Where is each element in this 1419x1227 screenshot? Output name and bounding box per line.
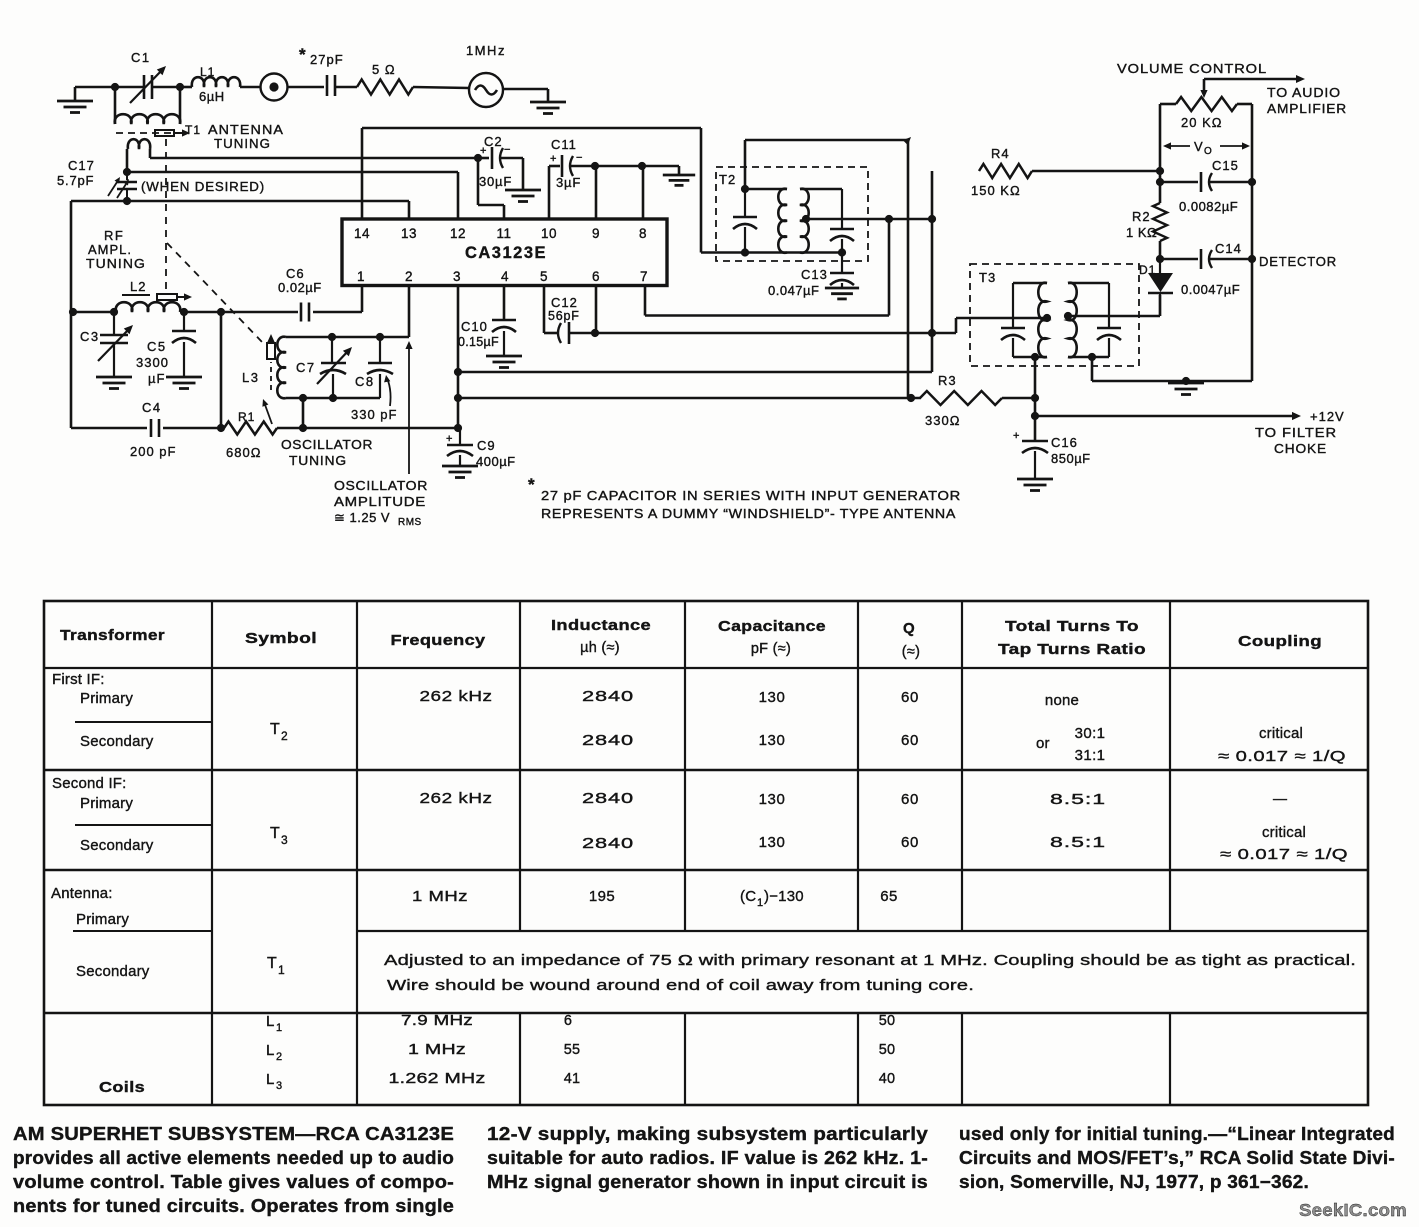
svg-text:T: T bbox=[270, 721, 280, 738]
wire R3 to C16 node bbox=[1002, 397, 1035, 400]
svg-text:R4: R4 bbox=[991, 146, 1010, 161]
svg-text:TO AUDIO: TO AUDIO bbox=[1267, 85, 1341, 100]
svg-text:C7: C7 bbox=[296, 360, 316, 375]
svg-text:Antenna:: Antenna: bbox=[51, 885, 113, 902]
svg-text:3300: 3300 bbox=[136, 355, 169, 370]
svg-text:130: 130 bbox=[759, 834, 786, 851]
ground at C16 bbox=[1017, 479, 1053, 491]
wire pot right rail bbox=[1251, 104, 1254, 381]
svg-text:L: L bbox=[266, 1013, 274, 1030]
svg-text:50: 50 bbox=[879, 1042, 896, 1058]
svg-text:20 KΩ: 20 KΩ bbox=[1181, 115, 1222, 130]
capacitor C11 3uF bbox=[549, 137, 595, 219]
node T2 primary top bbox=[741, 185, 749, 193]
wire T2 primary top to supply riser bbox=[745, 137, 911, 398]
footnote 27pF dummy antenna bbox=[528, 475, 961, 521]
node C1 left bbox=[111, 83, 119, 91]
svg-text:—: — bbox=[1273, 790, 1287, 806]
wire pot left riser bbox=[1159, 104, 1162, 203]
svg-text:Symbol: Symbol bbox=[245, 630, 317, 647]
svg-text:60: 60 bbox=[901, 834, 919, 851]
svg-text:130: 130 bbox=[759, 791, 786, 808]
svg-text:50: 50 bbox=[879, 1013, 896, 1029]
svg-text:+: + bbox=[480, 145, 486, 157]
svg-text:2840: 2840 bbox=[582, 688, 634, 705]
svg-text:Frequency: Frequency bbox=[391, 632, 486, 649]
svg-text:30:1: 30:1 bbox=[1075, 725, 1106, 742]
node C17 top bbox=[123, 168, 131, 176]
svg-text:30µF: 30µF bbox=[479, 174, 512, 189]
svg-text:5 Ω: 5 Ω bbox=[372, 62, 396, 77]
svg-text:nents for tuned circuits. Oper: nents for tuned circuits. Operates from … bbox=[13, 1196, 454, 1216]
svg-text:C12: C12 bbox=[551, 295, 578, 310]
svg-text:OSCILLATOR: OSCILLATOR bbox=[281, 437, 373, 452]
svg-text:Capacitance: Capacitance bbox=[718, 618, 826, 635]
svg-text:5.7pF: 5.7pF bbox=[57, 173, 94, 188]
svg-text:C11: C11 bbox=[551, 137, 577, 152]
label C17 5.7pF bbox=[57, 158, 95, 188]
svg-text:2: 2 bbox=[276, 1051, 282, 1063]
svg-text:)−130: )−130 bbox=[764, 888, 804, 905]
svg-text:1.262 MHz: 1.262 MHz bbox=[389, 1071, 486, 1087]
svg-text:(WHEN DESIRED): (WHEN DESIRED) bbox=[141, 179, 265, 194]
table row Antenna / T1 bbox=[51, 885, 1356, 994]
ground at C9 bbox=[442, 466, 478, 478]
capacitor C6 0.02uF bbox=[278, 266, 362, 322]
svg-text:55: 55 bbox=[564, 1042, 581, 1058]
wire pin 2 to oscillator bbox=[408, 286, 411, 337]
svg-text:262 kHz: 262 kHz bbox=[420, 688, 493, 705]
svg-text:+12V: +12V bbox=[1310, 409, 1345, 424]
node C8 top bbox=[376, 333, 384, 341]
capacitor T3 primary tuning bbox=[1001, 283, 1025, 357]
svg-text:none: none bbox=[1045, 692, 1079, 709]
wire T2 tap to R4 riser bbox=[806, 218, 932, 221]
wire R1 to pin 3 bbox=[277, 427, 458, 430]
svg-text:1: 1 bbox=[357, 269, 365, 284]
transformer T2 primary coil bbox=[745, 189, 787, 253]
svg-text:2840: 2840 bbox=[582, 790, 634, 807]
svg-text:Primary: Primary bbox=[76, 911, 129, 928]
svg-text:330Ω: 330Ω bbox=[925, 413, 960, 428]
svg-text:TUNING: TUNING bbox=[289, 453, 347, 468]
svg-text:L2: L2 bbox=[130, 279, 146, 294]
node oscillator to R1 bbox=[299, 394, 307, 402]
capacitor T2 primary tuning bbox=[733, 189, 757, 253]
svg-text:680Ω: 680Ω bbox=[226, 445, 261, 460]
capacitor C3 (variable) bbox=[80, 312, 133, 377]
label TO AUDIO AMPLIFIER bbox=[1267, 85, 1347, 116]
svg-text:60: 60 bbox=[901, 689, 919, 706]
wire pin 7 bbox=[645, 219, 889, 316]
svg-text:1: 1 bbox=[757, 897, 763, 909]
svg-text:130: 130 bbox=[759, 732, 786, 749]
svg-text:Secondary: Secondary bbox=[80, 733, 154, 750]
node pin 6 bbox=[591, 329, 599, 337]
svg-text:SeekIC.com: SeekIC.com bbox=[1299, 1200, 1407, 1220]
oscillator tank bottom rail bbox=[286, 397, 380, 400]
transformer T3 box (dashed) bbox=[970, 264, 1139, 366]
node C14 right DETECTOR bbox=[1248, 254, 1337, 269]
svg-text:3µF: 3µF bbox=[556, 175, 581, 190]
svg-text:C14: C14 bbox=[1215, 241, 1242, 256]
svg-text:provides all active elements n: provides all active elements needed up t… bbox=[13, 1148, 454, 1168]
svg-text:850µF: 850µF bbox=[1051, 451, 1091, 466]
svg-text:8.5:1: 8.5:1 bbox=[1050, 791, 1106, 808]
pot wiper to audio amplifier bbox=[1200, 75, 1305, 98]
svg-text:C9: C9 bbox=[477, 438, 496, 453]
svg-text:Coils: Coils bbox=[99, 1079, 145, 1096]
svg-text:Secondary: Secondary bbox=[80, 837, 154, 854]
svg-text:RMS: RMS bbox=[398, 517, 422, 528]
svg-text:T: T bbox=[267, 955, 277, 972]
caption column 1 bbox=[13, 1124, 454, 1216]
capacitor C16 850uF bbox=[1013, 430, 1091, 479]
node C15 right bbox=[1248, 178, 1256, 186]
svg-text:31:1: 31:1 bbox=[1075, 747, 1106, 764]
svg-text:C1: C1 bbox=[131, 50, 151, 65]
svg-text:Coupling: Coupling bbox=[1238, 633, 1322, 650]
svg-text:11: 11 bbox=[496, 226, 511, 241]
svg-text:60: 60 bbox=[901, 791, 919, 808]
wire oscillator bottom to R1 wire bbox=[299, 398, 307, 432]
svg-text:27pF: 27pF bbox=[310, 52, 344, 67]
table row First IF bbox=[52, 671, 1346, 765]
ground at C11 line bbox=[663, 175, 695, 185]
node C7 top bbox=[328, 333, 336, 341]
table row Coils bbox=[99, 1013, 895, 1096]
svg-text:L3: L3 bbox=[242, 370, 259, 385]
capacitor C7 (variable) bbox=[296, 337, 352, 398]
inductor L2 bbox=[116, 279, 181, 312]
svg-text:4: 4 bbox=[501, 269, 509, 284]
wire generator to ground bbox=[503, 88, 548, 91]
svg-text:Transformer: Transformer bbox=[60, 627, 165, 644]
wire +12V line bbox=[1035, 412, 1301, 420]
svg-text:14: 14 bbox=[354, 226, 370, 241]
svg-text:C17: C17 bbox=[68, 158, 95, 173]
potentiometer 20K volume bbox=[1160, 97, 1252, 130]
svg-text:C15: C15 bbox=[1212, 158, 1239, 173]
wire R4 riser bbox=[928, 171, 936, 372]
svg-text:≈ 0.017 ≈ 1/Q: ≈ 0.017 ≈ 1/Q bbox=[1218, 748, 1346, 765]
capacitor C14 0.0047uF bbox=[1160, 241, 1252, 297]
wire T1 secondary to C2 (H1) bbox=[150, 157, 478, 160]
label OSCILLATOR TUNING with arrow bbox=[262, 399, 373, 468]
ground at output rail bbox=[1168, 383, 1204, 395]
watermark SeekIC.com bbox=[1299, 1200, 1407, 1220]
svg-text:ANTENNA: ANTENNA bbox=[208, 122, 284, 137]
svg-text:sion, Somerville, NJ, 1977, p: sion, Somerville, NJ, 1977, p 361−362. bbox=[959, 1172, 1309, 1192]
label WHEN DESIRED bbox=[141, 179, 265, 194]
svg-text:C16: C16 bbox=[1051, 435, 1078, 450]
svg-text:critical: critical bbox=[1259, 725, 1303, 742]
pin numbers top row bbox=[354, 226, 647, 241]
svg-text:8: 8 bbox=[639, 226, 647, 241]
transformer T1 secondary bbox=[127, 139, 150, 172]
Vo annotation bbox=[1163, 139, 1250, 157]
node ground rail bbox=[1182, 377, 1190, 385]
svg-text:L1: L1 bbox=[200, 65, 215, 79]
svg-text:1MHz: 1MHz bbox=[466, 43, 506, 58]
svg-text:3: 3 bbox=[276, 1080, 282, 1092]
svg-text:First IF:: First IF: bbox=[52, 671, 105, 688]
svg-text:critical: critical bbox=[1262, 824, 1306, 841]
svg-text:1 KΩ: 1 KΩ bbox=[1126, 225, 1157, 240]
svg-text:0.15µF: 0.15µF bbox=[458, 335, 499, 349]
transformer T3 primary coil bbox=[1013, 283, 1047, 358]
node C2 input bbox=[474, 154, 482, 162]
table row Second IF bbox=[52, 775, 1348, 863]
svg-text:150 KΩ: 150 KΩ bbox=[971, 183, 1021, 198]
svg-text:+: + bbox=[1013, 430, 1019, 442]
svg-text:R2: R2 bbox=[1132, 209, 1151, 224]
svg-text:Second IF:: Second IF: bbox=[52, 775, 127, 792]
node A (R4 feed) bbox=[1156, 167, 1164, 175]
capacitor C8 330pF bbox=[355, 337, 393, 398]
svg-text:Primary: Primary bbox=[80, 795, 133, 812]
diode D1 bbox=[1139, 259, 1173, 316]
node pin7 riser top bbox=[885, 215, 893, 223]
node T3 primary tap bbox=[1043, 314, 1051, 322]
capacitor C1 (variable) bbox=[130, 50, 166, 103]
signal generator 1 MHz bbox=[466, 43, 506, 107]
svg-text:µh (≈): µh (≈) bbox=[580, 640, 620, 656]
wire W2 pin3 to R3 bbox=[458, 397, 921, 400]
node T3 secondary bottom bbox=[1088, 353, 1096, 361]
table frame bbox=[44, 601, 1368, 1105]
svg-text:8.5:1: 8.5:1 bbox=[1050, 834, 1106, 851]
capacitor *27pF bbox=[299, 45, 357, 96]
T1 tuning slug bbox=[155, 129, 190, 136]
svg-text:1 MHz: 1 MHz bbox=[408, 1042, 466, 1058]
svg-text:DETECTOR: DETECTOR bbox=[1259, 254, 1337, 269]
label C5 3300 uF bbox=[136, 339, 169, 386]
node C15 left bbox=[1156, 178, 1164, 186]
svg-text:AM SUPERHET SUBSYSTEM—RCA C: AM SUPERHET SUBSYSTEM—RCA CA3123E bbox=[13, 1124, 454, 1144]
svg-text:(≈): (≈) bbox=[902, 644, 921, 660]
node T3 feed bbox=[1031, 394, 1039, 402]
svg-text:V: V bbox=[1194, 139, 1203, 154]
node C14 left (detector) bbox=[1156, 255, 1164, 263]
svg-text:CHOKE: CHOKE bbox=[1274, 441, 1327, 456]
label 330 pF with arrow bbox=[351, 375, 397, 422]
wire pin 3 down bbox=[457, 286, 460, 428]
capacitor T2 secondary tuning bbox=[830, 189, 854, 253]
wire C2 node to pin 11 bbox=[478, 158, 504, 220]
node T2 secondary tap bbox=[802, 215, 810, 223]
capacitor C2 30uF bbox=[478, 134, 523, 190]
L3 tuning slug bbox=[267, 334, 275, 390]
svg-text:Primary: Primary bbox=[80, 690, 133, 707]
wire C11 line to ground bbox=[595, 166, 679, 175]
svg-text:C2: C2 bbox=[484, 134, 503, 149]
wire input top rail bbox=[75, 86, 180, 89]
transformer T2 box (dashed) bbox=[716, 167, 868, 261]
inductor L1 bbox=[180, 65, 261, 104]
ground at generator bbox=[530, 89, 566, 114]
svg-text:2: 2 bbox=[405, 269, 413, 284]
ground at antenna input bbox=[57, 87, 93, 113]
wire pin 9 riser bbox=[595, 166, 598, 219]
svg-text:1: 1 bbox=[278, 963, 285, 977]
capacitor C15 0.0082uF bbox=[1160, 158, 1252, 214]
svg-text:330 pF: 330 pF bbox=[351, 407, 397, 422]
inductor L3 bbox=[242, 337, 286, 399]
resistor R1 680 ohm bbox=[224, 410, 277, 460]
pin numbers bottom row bbox=[357, 269, 648, 284]
wire pin 6 riser bbox=[595, 286, 598, 333]
connector (phono jack symbol) bbox=[261, 74, 325, 101]
node L2 right bbox=[180, 308, 188, 316]
svg-text:7: 7 bbox=[640, 269, 648, 284]
transformer T2 secondary coil bbox=[800, 189, 842, 253]
svg-text:*: * bbox=[299, 45, 306, 64]
svg-text:TUNING: TUNING bbox=[214, 136, 271, 151]
node C1 right bbox=[176, 83, 184, 91]
svg-text:T1: T1 bbox=[185, 123, 201, 137]
svg-text:6: 6 bbox=[592, 269, 600, 284]
wire L2 rail bbox=[71, 311, 362, 314]
svg-text:0.02µF: 0.02µF bbox=[278, 280, 322, 295]
node pin 9 tap bbox=[591, 162, 599, 170]
svg-text:C5: C5 bbox=[147, 339, 167, 354]
node pin 8 tap bbox=[638, 162, 646, 170]
svg-text:T2: T2 bbox=[719, 172, 736, 187]
svg-text:6: 6 bbox=[564, 1013, 572, 1029]
svg-text:R1: R1 bbox=[238, 410, 255, 424]
svg-text:volume control. Table gives va: volume control. Table gives values of co… bbox=[13, 1172, 454, 1192]
node C4 branch top bbox=[217, 308, 225, 316]
dashed gang line T1 to L2 bbox=[165, 139, 167, 294]
svg-text:7.9 MHz: 7.9 MHz bbox=[401, 1013, 473, 1029]
svg-text:*: * bbox=[528, 475, 535, 494]
svg-text:56pF: 56pF bbox=[548, 309, 580, 323]
svg-text:0.0082µF: 0.0082µF bbox=[1179, 199, 1238, 214]
svg-text:C13: C13 bbox=[801, 267, 828, 282]
svg-text:T: T bbox=[270, 825, 280, 842]
oscillator tank top rail bbox=[286, 336, 409, 339]
caption column 3 bbox=[959, 1124, 1395, 1192]
svg-text:AMPLITUDE: AMPLITUDE bbox=[334, 494, 426, 509]
ground at C5 bbox=[166, 377, 202, 389]
caption column 2 bbox=[487, 1124, 928, 1192]
svg-text:10: 10 bbox=[541, 226, 557, 241]
svg-text:1: 1 bbox=[276, 1022, 282, 1034]
node C7 bottom bbox=[329, 394, 337, 402]
svg-text:O: O bbox=[1204, 146, 1212, 157]
svg-text:9: 9 bbox=[592, 226, 600, 241]
svg-text:≅ 1.25 V: ≅ 1.25 V bbox=[334, 510, 390, 525]
wire C4 rail bbox=[71, 312, 221, 428]
svg-text:2840: 2840 bbox=[582, 835, 634, 852]
svg-text:65: 65 bbox=[880, 888, 898, 905]
svg-text:C10: C10 bbox=[461, 319, 488, 334]
label T1 ANTENNA TUNING bbox=[185, 122, 284, 151]
resistor R4 150K bbox=[971, 146, 1032, 198]
svg-text:195: 195 bbox=[589, 888, 615, 905]
op-amp/IC U1 CA3123E bbox=[342, 219, 667, 286]
svg-text:200 pF: 200 pF bbox=[130, 444, 176, 459]
svg-text:R3: R3 bbox=[938, 373, 957, 388]
svg-text:MHz signal generator shown in: MHz signal generator shown in input circ… bbox=[487, 1172, 928, 1192]
svg-text:2840: 2840 bbox=[582, 732, 634, 749]
wire T3 secondary tap to D1 bbox=[1068, 295, 1160, 316]
svg-text:used only for initial tuning.—: used only for initial tuning.—“Linear In… bbox=[959, 1124, 1395, 1144]
wire C16 riser bbox=[1034, 357, 1037, 441]
svg-text:AMPLIFIER: AMPLIFIER bbox=[1267, 101, 1347, 116]
callout arrow oscillator amplitude bbox=[405, 341, 412, 474]
svg-text:Total Turns To: Total Turns To bbox=[1005, 618, 1139, 635]
ground at C10 bbox=[486, 356, 522, 368]
wire T3 secondary bottom to ground rail bbox=[1091, 357, 1094, 381]
svg-text:6µH: 6µH bbox=[199, 89, 225, 104]
svg-text:pF (≈): pF (≈) bbox=[751, 641, 791, 657]
capacitor C5 3300uF bbox=[172, 312, 196, 377]
node T3 primary bottom bbox=[1031, 353, 1039, 361]
wire R4 to volume pot bbox=[1032, 170, 1160, 173]
capacitor C4 200pF bbox=[130, 400, 176, 459]
svg-text:CA3123E: CA3123E bbox=[465, 244, 547, 262]
svg-text:Wire should be wound around en: Wire should be wound around end of coil … bbox=[387, 977, 974, 994]
svg-text:3: 3 bbox=[453, 269, 461, 284]
node L2 left bbox=[69, 308, 118, 316]
transformer T3 secondary coil bbox=[1068, 283, 1109, 358]
svg-text:60: 60 bbox=[901, 732, 919, 749]
svg-text:130: 130 bbox=[759, 689, 786, 706]
svg-text:µF: µF bbox=[148, 371, 165, 386]
node C9 junction bbox=[454, 424, 462, 432]
svg-text:13: 13 bbox=[401, 226, 417, 241]
wire pin 8 riser bbox=[642, 166, 645, 219]
svg-text:Circuits and MOS/FET’s,” RCA S: Circuits and MOS/FET’s,” RCA Solid State… bbox=[959, 1148, 1395, 1168]
ground at C3 bbox=[96, 377, 132, 389]
node T3 secondary tap bbox=[1064, 312, 1072, 320]
svg-text:Tap Turns Ratio: Tap Turns Ratio bbox=[998, 641, 1146, 658]
svg-text:VOLUME CONTROL: VOLUME CONTROL bbox=[1117, 61, 1267, 76]
capacitor C17 (trimmer, when desired) bbox=[108, 172, 137, 201]
svg-text:AMPL.: AMPL. bbox=[88, 242, 132, 257]
svg-text:2: 2 bbox=[281, 729, 288, 743]
svg-text:C3: C3 bbox=[80, 329, 100, 344]
capacitor C10 0.15uF bbox=[458, 286, 516, 356]
svg-text:27 pF CAPACITOR IN SERIES: 27 pF CAPACITOR IN SERIES WITH INPUT GEN… bbox=[541, 488, 961, 503]
wire T2 bottom bbox=[701, 251, 842, 254]
node R1 left bbox=[217, 424, 225, 432]
svg-text:REPRESENTS A DUMMY “WINDSHI: REPRESENTS A DUMMY “WINDSHIELD”- TYPE AN… bbox=[541, 506, 956, 521]
svg-text:0.0047µF: 0.0047µF bbox=[1181, 282, 1240, 297]
svg-text:1 MHz: 1 MHz bbox=[412, 888, 468, 905]
node C9 top bbox=[454, 394, 462, 402]
svg-text:+: + bbox=[550, 153, 556, 165]
capacitor C9 400uF bbox=[446, 428, 516, 469]
svg-text:5: 5 bbox=[540, 269, 548, 284]
node C13 junction bbox=[838, 248, 846, 256]
wire pin 14 to T2 rail bbox=[362, 128, 701, 253]
resistor R2 1K bbox=[1126, 203, 1167, 259]
resistor R3 330 ohm bbox=[920, 373, 1002, 428]
svg-text:L: L bbox=[266, 1071, 274, 1088]
svg-text:−: − bbox=[576, 152, 582, 164]
svg-text:40: 40 bbox=[879, 1071, 896, 1087]
label RF AMPL TUNING bbox=[86, 228, 146, 271]
svg-text:Q: Q bbox=[903, 620, 915, 637]
svg-text:suitable for auto radios. IF v: suitable for auto radios. IF value is 26… bbox=[487, 1148, 928, 1168]
svg-text:400µF: 400µF bbox=[476, 454, 516, 469]
wire to generator bbox=[413, 87, 469, 88]
wire L2 node down to C4 bbox=[220, 312, 223, 428]
svg-text:+: + bbox=[446, 433, 452, 445]
